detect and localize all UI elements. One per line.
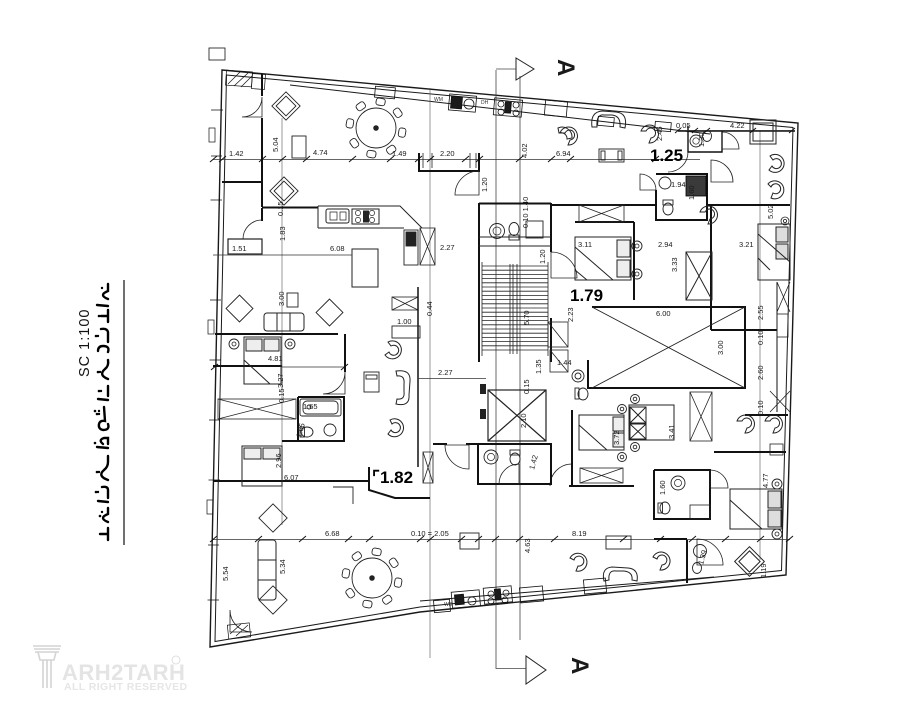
svg-text:1.94: 1.94: [671, 180, 686, 189]
dimension 1.20: [538, 249, 547, 264]
svg-text:6.94: 6.94: [556, 149, 571, 158]
diamond bottom-right: [735, 547, 765, 577]
closet X marks right: [770, 282, 790, 455]
dimension 2.23: [566, 307, 575, 322]
wall dot right: [781, 217, 789, 225]
svg-text:4.77: 4.77: [761, 473, 770, 488]
svg-text:⌜1.82: ⌜1.82: [372, 468, 413, 487]
window boxes left wall: [207, 128, 215, 514]
top-left entrance hatch: [225, 70, 265, 89]
coffee table upper-right: [599, 149, 624, 162]
dimension 1.39: [696, 549, 708, 565]
svg-text:4.63: 4.63: [523, 538, 532, 553]
svg-text:3.00: 3.00: [716, 340, 725, 355]
dim line 4.81: [282, 366, 345, 368]
corner table LL: [333, 487, 353, 504]
dimension 3.00: [716, 340, 725, 355]
wall y441 lower-left: [282, 440, 298, 442]
dimension 2.45: [655, 126, 664, 141]
svg-text:6.08: 6.08: [330, 244, 345, 253]
bed dot left: [229, 339, 239, 349]
door arc left corridor: [243, 220, 262, 239]
svg-text:2.23: 2.23: [566, 307, 575, 322]
wall lower-left unit bottom with diagonal: [213, 467, 430, 498]
section cut line right: [519, 76, 521, 640]
WC small mid toilet: [572, 370, 588, 400]
elevator mid X: [488, 390, 546, 441]
door arc WC lower: [499, 464, 519, 484]
inner boundary wall line: [215, 75, 793, 642]
interior walls upper unit: [222, 74, 795, 362]
hall small rect a: [365, 368, 367, 370]
beds bottom-center pair: [579, 405, 674, 450]
svg-text:1.51: 1.51: [232, 244, 247, 253]
dim line right top y130: [678, 130, 795, 132]
wall right rooms divider y452: [726, 451, 786, 453]
door arc upper living: [455, 171, 479, 195]
wall right terrace divider y415: [745, 414, 788, 416]
svg-text:3.11: 3.11: [578, 240, 592, 249]
dimension 4.77: [761, 473, 770, 488]
bottom strip appliance stove: [483, 586, 512, 604]
bath130 sink: [690, 135, 702, 147]
wall bedroom L right x345: [344, 334, 346, 372]
bottom strip appliance sink: [451, 590, 480, 608]
WC by stairs toilet: [509, 223, 519, 241]
dimension 5.70: [522, 310, 531, 325]
closet strip right wall: [776, 282, 778, 412]
armchair round upper-right b: [641, 125, 658, 143]
door arc bedroomL: [323, 372, 345, 394]
svg-text:0.10: 0.10: [756, 400, 765, 415]
section marker top connector: [496, 68, 516, 70]
svg-text:2.94: 2.94: [658, 240, 673, 249]
dimension 1.60: [658, 480, 667, 495]
window ticks left wall: [208, 110, 224, 600]
bed corner dots bottom-center: [618, 395, 640, 462]
wall hall door stubs: [433, 443, 478, 445]
svg-text:2.45: 2.45: [655, 126, 664, 141]
bottom living armchair b: [653, 552, 670, 570]
svg-text:DH: DH: [481, 100, 489, 106]
dim reference box: [460, 533, 479, 549]
bath160 sink: [671, 476, 685, 490]
sofa 3seat mid-left: [264, 313, 304, 331]
bed upper bedroom311: [575, 237, 631, 280]
top rail window boxes: [598, 116, 615, 126]
door arc living from bath: [668, 152, 688, 172]
section cut line left: [496, 70, 526, 669]
svg-text:4.74: 4.74: [313, 148, 328, 157]
svg-text:0.10: 0.10: [756, 330, 765, 345]
bath130 toilet: [703, 131, 712, 142]
door arc bath160: [710, 470, 728, 488]
hall armchair b: [388, 419, 404, 437]
svg-text:0.15: 0.15: [277, 388, 286, 403]
armchair diamond LL b: [259, 586, 287, 614]
svg-text:1.42: 1.42: [229, 149, 244, 158]
wall WC top y203: [479, 203, 551, 205]
title persian text (drawn strokes): [94, 284, 109, 540]
dimension 1.83: [278, 226, 287, 241]
dimension 5.02: [766, 204, 775, 219]
svg-text:0.10 1.40: 0.10 1.40: [521, 197, 530, 228]
armchair diamond LL a: [259, 504, 287, 532]
dimension 1.19: [759, 563, 768, 578]
wall bath160 box: [654, 470, 710, 519]
svg-text:3.72: 3.72: [612, 430, 621, 445]
svg-text:0.44: 0.44: [425, 301, 434, 316]
svg-text:8.19: 8.19: [572, 529, 587, 538]
wall top-right bath: [678, 126, 795, 152]
wall lower-left unit top y256: [262, 207, 318, 209]
dimension 0.10: [756, 400, 765, 415]
small rect bottom-right: [690, 505, 710, 519]
wall bedroom L top y334: [215, 333, 338, 335]
wardrobe X bottom-center: [690, 392, 712, 441]
svg-text:1.30: 1.30: [697, 132, 706, 147]
dim ticks top row: [210, 156, 659, 162]
dimension 4.02: [520, 143, 529, 158]
logo column icon: [33, 646, 61, 688]
svg-text:1.19: 1.19: [759, 563, 768, 578]
svg-text:4.81: 4.81: [268, 354, 283, 363]
hall sofa stadium vertical: [396, 371, 410, 405]
wall upper-right living bottom y205: [551, 204, 656, 206]
armchair round upper-right a: [560, 127, 577, 145]
side table TL: [292, 136, 306, 158]
door arc bottom-right room: [697, 539, 723, 565]
logo registered mark: [172, 656, 180, 664]
svg-text:3.41: 3.41: [667, 424, 676, 439]
wall right rooms divider y330: [711, 329, 777, 331]
dimension 2.96: [274, 453, 283, 468]
armchair diamond ML a: [226, 295, 253, 322]
bath165 tub: [300, 399, 341, 416]
kitchen counter upper: [318, 206, 422, 228]
bottom strip box a: [519, 586, 543, 603]
dimension 5.54: [221, 566, 230, 581]
dim line 2.27 lower: [418, 378, 486, 380]
dimension row bottom y=539: [213, 539, 790, 541]
duct boxes right of stairs: [548, 322, 568, 372]
bottom living sofa stadium: [603, 567, 637, 581]
hall WC toilet: [510, 450, 520, 465]
svg-text:0.10 = 2.05: 0.10 = 2.05: [411, 529, 449, 538]
svg-text:3.27: 3.27: [276, 373, 285, 388]
svg-text:1.25: 1.25: [650, 146, 683, 165]
dimension 0.15: [522, 379, 531, 394]
door arc bottom-left: [230, 610, 252, 632]
wall bedroom L bottom y366: [213, 365, 282, 367]
dimension 1.30: [697, 132, 706, 147]
dimension 3.00: [277, 291, 286, 306]
svg-text:3.21: 3.21: [739, 240, 754, 249]
svg-text:2.96: 2.96: [274, 453, 283, 468]
stairs treads: [482, 262, 548, 356]
dimension 1.42: [527, 454, 539, 470]
dimension 3.41: [667, 424, 676, 439]
dining round table lower: [342, 548, 403, 609]
top-right cabinet box: [750, 120, 776, 144]
top strip appliance WM: [448, 94, 476, 112]
side table ML: [287, 293, 298, 307]
shaft X hall top: [392, 297, 418, 310]
bath194 shower dark: [686, 176, 706, 196]
wall bedroom311 right x634: [633, 222, 635, 300]
svg-text:1.20: 1.20: [480, 177, 489, 192]
construction line vertical x=430: [429, 88, 431, 658]
svg-text:3.00: 3.00: [277, 291, 286, 306]
wall bottom bedroom y452: [569, 452, 726, 486]
dim ticks bottom row: [210, 536, 793, 542]
fridge lower kitchen: [352, 249, 378, 287]
wall y222 bedroom top: [575, 221, 634, 223]
svg-text:2.27: 2.27: [440, 243, 455, 252]
roof box above corner: [209, 48, 225, 60]
dimension 1.35: [534, 359, 543, 374]
wall bath165 box: [298, 397, 344, 441]
door arc bedroom311: [551, 252, 577, 278]
bath194 toilet: [663, 200, 673, 215]
wall stair left x479: [478, 203, 480, 362]
window ticks right wall: [782, 240, 797, 510]
void X diagonals: [592, 307, 745, 388]
svg-text:2.27: 2.27: [438, 368, 453, 377]
dimension 3.72: [612, 430, 621, 445]
stair stringer rails: [510, 264, 517, 354]
section marker top triangle: [516, 58, 534, 80]
dimension 2.55: [756, 305, 765, 320]
svg-text:1.35: 1.35: [534, 359, 543, 374]
svg-text:1.20: 1.20: [538, 249, 547, 264]
wall bath1 box: [656, 174, 707, 220]
dimension 0.15: [277, 388, 286, 403]
wall stair right x551: [550, 203, 552, 362]
svg-text:WM: WM: [434, 97, 443, 103]
interior walls lower unit: [211, 282, 788, 583]
svg-text:2.60: 2.60: [756, 365, 765, 380]
construction line vertical x=760: [759, 130, 761, 560]
svg-text:1.60: 1.60: [687, 185, 696, 200]
wall left rooms divider y178: [222, 181, 262, 183]
dimension 0.44: [425, 301, 434, 316]
armchair quarter upper-right c: [558, 127, 572, 139]
wall y539 bottom-right: [654, 538, 687, 540]
svg-text:5.70: 5.70: [522, 310, 531, 325]
dim ticks right top: [675, 128, 795, 133]
sofa vertical lower-left: [258, 540, 276, 600]
dining round table: [346, 98, 407, 159]
bath139 sink: [694, 545, 707, 558]
entry closet shelves: [423, 153, 476, 168]
hall WC sink: [484, 450, 498, 464]
wall x572: [571, 410, 573, 486]
construction line vertical x=282: [281, 118, 283, 525]
svg-text:3.33: 3.33: [670, 257, 679, 272]
dimension 1.60: [687, 185, 696, 200]
bottom-left entrance hatch: [227, 623, 250, 639]
dimension 0.10: [756, 330, 765, 345]
dimension 0.15: [276, 201, 285, 216]
top strip box b: [375, 86, 396, 99]
bath165 toilet: [300, 427, 313, 437]
dimension 1.00 box: [392, 326, 420, 338]
bed lower-left 481: [244, 337, 281, 384]
svg-text:1.60: 1.60: [658, 480, 667, 495]
top strip box a: [544, 100, 567, 117]
svg-text:0.15: 0.15: [522, 379, 531, 394]
hall coffee table: [364, 372, 379, 392]
bath165 sink: [324, 424, 336, 436]
stair side walls: [482, 262, 548, 356]
section letter A bottom: [566, 657, 593, 674]
wall bedroom321 left x711: [710, 205, 712, 330]
svg-text:0.15: 0.15: [276, 201, 285, 216]
armchair diamond living TL a: [272, 92, 300, 120]
wall void big rect: [588, 307, 745, 388]
bed side dot b: [632, 269, 642, 279]
dimension 2.10: [519, 413, 528, 428]
dimension 4.63: [523, 538, 532, 553]
svg-text:6.07: 6.07: [284, 473, 299, 482]
sofa stadium upper-right: [592, 111, 626, 128]
kitchen sink upper: [326, 209, 349, 223]
armchairs bottom-right pair a: [737, 415, 754, 433]
hall armchair a: [385, 341, 401, 359]
stair top landing counter: [479, 237, 551, 246]
title underline: [123, 280, 125, 545]
svg-text:5.04: 5.04: [271, 137, 280, 152]
wall entry closet area: [419, 153, 479, 171]
bottom strip box b: [434, 599, 451, 612]
bed right bedroom321: [758, 224, 790, 280]
shaft hatch kitchen: [420, 228, 435, 265]
section letter A top: [552, 59, 579, 76]
svg-text:5.54: 5.54: [221, 566, 230, 581]
svg-text:1.83: 1.83: [278, 226, 287, 241]
svg-text:4.22: 4.22: [730, 121, 745, 130]
svg-text:2.55: 2.55: [756, 305, 765, 320]
top strip appliance DW: [493, 98, 522, 117]
WC by stairs sink: [490, 224, 505, 239]
svg-text:SC 1:100: SC 1:100: [77, 309, 93, 377]
armchair diamond ML b: [316, 299, 343, 326]
bottom kitchen strip rail line: [420, 577, 714, 601]
dim line kitchen y255: [213, 254, 352, 256]
svg-text:4.02: 4.02: [520, 143, 529, 158]
elevator upper X: [686, 252, 712, 300]
svg-text:A: A: [566, 657, 593, 674]
armchairs right-mid pair a: [700, 206, 717, 224]
door arc bedroom bottom: [550, 464, 572, 486]
dimension 3.33: [670, 257, 679, 272]
cabinet 1.51 box: [228, 239, 262, 254]
terrace armchair b: [768, 181, 784, 199]
svg-text:6.00: 6.00: [656, 309, 671, 318]
dimension 2.60: [756, 365, 765, 380]
bed dot right: [285, 339, 295, 349]
svg-text:1.00: 1.00: [397, 317, 412, 326]
dimension 1.20: [480, 177, 489, 192]
top balcony rail line: [290, 85, 710, 134]
dimension 0.10 1.40: [521, 197, 530, 228]
scale text SC 1:100: [77, 309, 93, 377]
wardrobe X lower-left bedroom: [218, 399, 296, 419]
wall hall left x418: [417, 287, 419, 467]
bed dot br b: [772, 529, 782, 539]
wardrobe X upper bedroom: [579, 205, 624, 222]
bed side dot a: [632, 241, 642, 251]
svg-text:2.20: 2.20: [440, 149, 455, 158]
bed dot br a: [772, 479, 782, 489]
dimension row top y=159: [213, 159, 700, 161]
dimension 5.34: [278, 559, 287, 574]
bottom living armchair a: [570, 553, 587, 571]
dimension 1.65: [294, 422, 306, 438]
dimension 5.04: [271, 137, 280, 152]
wall bottom-right bedroom left x687: [686, 540, 688, 583]
svg-text:1.65: 1.65: [303, 402, 318, 411]
svg-text:ALL RIGHT RESERVED: ALL RIGHT RESERVED: [64, 681, 188, 693]
elevator door posts: [480, 384, 486, 394]
terrace armchair a: [769, 154, 784, 172]
door arc right bedroom 321: [711, 160, 733, 182]
kitchen tall cabinet DW: [404, 230, 418, 265]
dim box 8.19 row: [606, 536, 631, 549]
svg-text:6.68: 6.68: [325, 529, 340, 538]
svg-text:1.49: 1.49: [392, 149, 407, 158]
bath194 sink: [659, 177, 671, 189]
wall hall WC lower box: [478, 444, 551, 484]
wall left corridor vertical x262: [261, 74, 263, 221]
wall y205 right: [707, 204, 790, 206]
armchair diamond living TL b: [270, 177, 298, 205]
kitchen stove upper: [352, 209, 379, 224]
door arc bath194: [640, 174, 656, 190]
bottom strip box c: [583, 578, 606, 594]
bed bottom-right: [730, 489, 782, 529]
section marker bottom triangle: [526, 656, 546, 684]
door arc entry TL: [242, 97, 262, 117]
armchairs bottom-right pair b: [765, 415, 782, 433]
svg-text:1.79: 1.79: [570, 286, 603, 305]
svg-text:0.05: 0.05: [676, 121, 691, 130]
svg-text:1.44: 1.44: [557, 358, 572, 367]
bath160 toilet: [658, 502, 670, 514]
svg-text:WD: WD: [444, 602, 453, 608]
bath139 toilet: [693, 563, 702, 574]
dimension 3.27: [276, 373, 285, 388]
svg-text:5.02: 5.02: [766, 204, 775, 219]
svg-text:5.34: 5.34: [278, 559, 287, 574]
outer boundary wall: [210, 70, 798, 647]
door arc hall a: [445, 445, 469, 469]
door arc bath TR: [722, 132, 739, 149]
bed lower-left second: [242, 446, 282, 486]
svg-text:A: A: [552, 59, 579, 76]
shaft hatch hall: [423, 452, 433, 483]
WC shelf: [526, 221, 543, 238]
svg-text:2.10: 2.10: [519, 413, 528, 428]
bench X bedroom bottom: [580, 468, 623, 483]
